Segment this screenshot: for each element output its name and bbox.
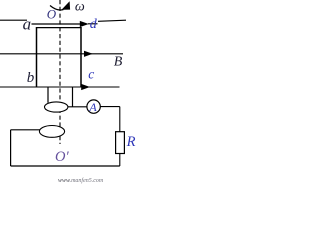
svg-text:d: d	[90, 17, 98, 32]
axis OO' dashed line	[59, 0, 61, 144]
svg-text:O: O	[47, 7, 57, 22]
coil left side ab	[36, 27, 38, 88]
field line B1 right stub	[98, 20, 126, 21]
bottom wire	[11, 165, 120, 167]
svg-text:B: B	[114, 55, 123, 70]
svg-text:b: b	[27, 70, 35, 86]
field line B1 left stub	[0, 19, 27, 21]
field line B2	[0, 53, 123, 55]
svg-text:www.manfen5.com: www.manfen5.com	[58, 177, 104, 184]
svg-text:a: a	[23, 15, 32, 34]
slip ring 1	[45, 102, 68, 112]
coil top side	[37, 27, 82, 29]
left wire	[10, 130, 12, 166]
wire coil to slip ring 1	[47, 87, 49, 103]
svg-text:c: c	[88, 67, 94, 82]
svg-text:ω: ω	[75, 0, 85, 15]
svg-text:R: R	[126, 134, 136, 150]
resistor R	[116, 132, 125, 154]
svg-text:O′: O′	[55, 149, 69, 165]
rotation arc	[50, 6, 64, 11]
ammeter A	[87, 100, 100, 113]
coil top wire a-d with current arrow	[32, 23, 82, 25]
wire coil to brush junction	[72, 87, 74, 107]
svg-text:A: A	[88, 100, 97, 114]
rotation arrowhead	[62, 1, 71, 10]
wire resistor to bottom	[119, 154, 121, 167]
wire ammeter to resistor	[100, 106, 120, 108]
coil right side dc	[80, 27, 82, 88]
field line B3	[0, 86, 120, 88]
wire to slip ring 2	[11, 129, 40, 131]
wire ring1 to ammeter	[68, 106, 87, 108]
slip ring 2	[39, 125, 64, 137]
